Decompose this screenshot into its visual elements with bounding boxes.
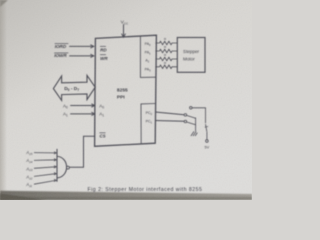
ground rail wire <box>195 118 197 132</box>
IORD arrow wire <box>69 45 93 47</box>
A14 arrowhead <box>54 159 56 161</box>
port C inner box <box>141 104 155 144</box>
switch S3 lever <box>206 124 207 132</box>
desk strip corner shadow <box>0 194 46 201</box>
A0 arrowhead <box>91 104 94 107</box>
address line A1 arrow <box>70 113 94 115</box>
resistor R3 <box>155 57 177 60</box>
NAND gate body U2 <box>57 156 67 177</box>
desk strip below page edge <box>0 191 252 200</box>
gate input wire A14 <box>34 159 56 162</box>
IORD arrowhead <box>90 45 93 48</box>
paper background <box>0 0 252 200</box>
WR pin overline <box>100 54 106 56</box>
PC0 wire <box>155 112 184 115</box>
NAND gate input bar <box>56 149 58 182</box>
stepper motor box M1 <box>177 38 205 73</box>
gate input wire A13 <box>34 167 56 169</box>
switch S1 lever <box>187 115 196 118</box>
desk strip bottom shading <box>0 197 252 200</box>
NAND gate output bubble <box>66 166 69 169</box>
gate input wire A12 <box>34 174 56 177</box>
IOWR overline <box>54 52 68 54</box>
A13 arrowhead <box>54 166 56 168</box>
Vcc arrowhead <box>122 34 126 38</box>
IOWR arrowhead <box>90 54 93 57</box>
PC1 wire <box>155 120 184 123</box>
A11 arrowhead <box>54 179 56 181</box>
address line A0 arrow <box>70 105 94 107</box>
CS pin overline <box>99 132 105 134</box>
switch S2 lever <box>187 122 196 125</box>
data bus D0-D7 double arrow <box>53 75 95 100</box>
switch S1 contact circle <box>184 114 187 117</box>
ground symbol <box>191 131 197 136</box>
resistor R1 <box>155 41 177 44</box>
IOWR arrow wire <box>69 55 93 57</box>
resistor R2 <box>155 49 177 52</box>
CS net wire from gate to 8255 <box>69 136 94 167</box>
switch S3 wire to rail <box>192 108 205 123</box>
gate input wire A11 <box>34 180 56 184</box>
RD pin overline <box>100 45 106 47</box>
resistor R4 <box>155 65 177 68</box>
left page shadow <box>0 0 7 200</box>
8255 PPI main box U1 <box>95 35 157 146</box>
A15 arrowhead <box>54 152 56 154</box>
photo grain overlay <box>0 0 252 200</box>
5V stub wire <box>206 132 208 140</box>
switch S3 lever tick <box>205 125 208 128</box>
switch S2 contact circle <box>184 120 187 123</box>
A1 arrowhead <box>91 112 94 115</box>
IORD overline <box>55 43 69 45</box>
vignette overlay <box>0 0 252 200</box>
switch S3 top contact circle <box>190 107 193 110</box>
5V terminal circle <box>206 140 209 143</box>
gate input wire A15 <box>34 152 56 154</box>
port A inner box <box>140 36 155 77</box>
A12 arrowhead <box>54 173 56 175</box>
top-left dark corner <box>0 0 8 7</box>
Vcc wire <box>123 24 125 37</box>
